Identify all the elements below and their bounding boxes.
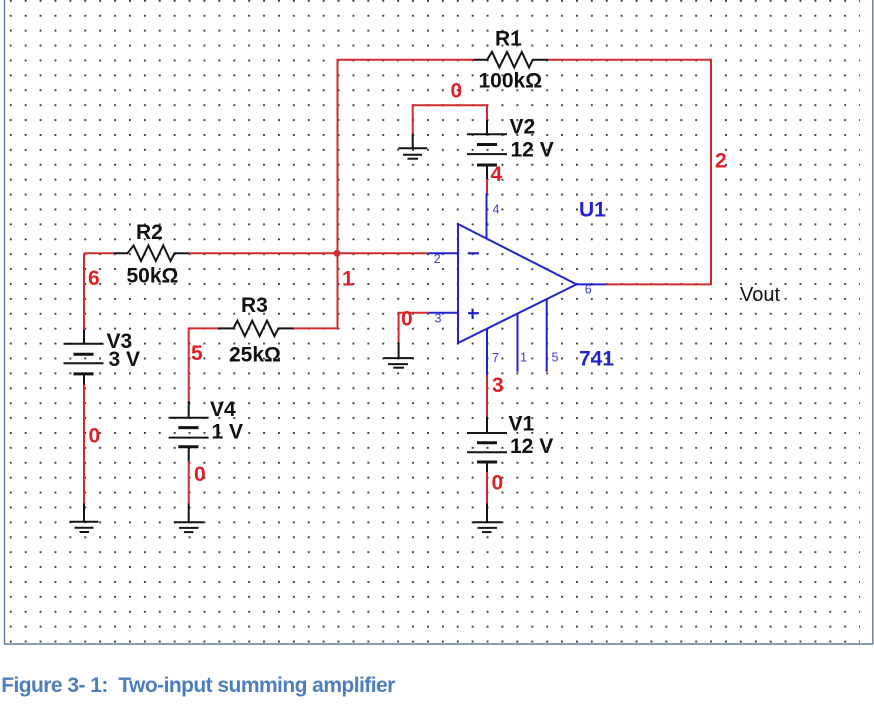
svg-text:2: 2	[434, 252, 441, 266]
svg-text:6: 6	[88, 267, 100, 290]
svg-text:1 V: 1 V	[212, 421, 244, 444]
svg-text:V4: V4	[210, 398, 236, 421]
svg-text:R2: R2	[136, 221, 163, 244]
svg-text:V2: V2	[510, 116, 536, 139]
svg-text:12 V: 12 V	[511, 139, 554, 162]
svg-text:1: 1	[342, 268, 354, 291]
svg-text:5: 5	[552, 351, 559, 365]
svg-text:3 V: 3 V	[109, 348, 141, 371]
svg-text:5: 5	[191, 342, 203, 365]
svg-text:741: 741	[579, 348, 614, 371]
svg-text:1: 1	[520, 351, 527, 365]
svg-text:6: 6	[585, 283, 592, 297]
svg-text:12 V: 12 V	[510, 435, 553, 458]
svg-text:R1: R1	[495, 28, 522, 51]
svg-text:7: 7	[492, 351, 499, 365]
svg-text:U1: U1	[579, 199, 606, 222]
svg-text:3: 3	[435, 312, 442, 326]
svg-text:2: 2	[715, 150, 727, 173]
svg-text:Figure 3- 1: Two-input summin: Figure 3- 1: Two-input summing amplifier	[1, 674, 395, 697]
svg-text:0: 0	[492, 472, 504, 495]
svg-text:100kΩ: 100kΩ	[479, 70, 543, 93]
svg-text:25kΩ: 25kΩ	[229, 344, 281, 367]
svg-text:0: 0	[451, 80, 463, 103]
svg-text:0: 0	[89, 425, 101, 448]
svg-text:4: 4	[493, 203, 500, 217]
svg-text:0: 0	[401, 308, 413, 331]
svg-text:Vout: Vout	[740, 284, 780, 306]
svg-text:50kΩ: 50kΩ	[127, 265, 179, 288]
svg-text:0: 0	[194, 463, 206, 486]
svg-text:4: 4	[491, 163, 503, 186]
svg-text:R3: R3	[241, 294, 268, 317]
svg-text:3: 3	[492, 374, 504, 397]
svg-text:V1: V1	[509, 413, 535, 436]
